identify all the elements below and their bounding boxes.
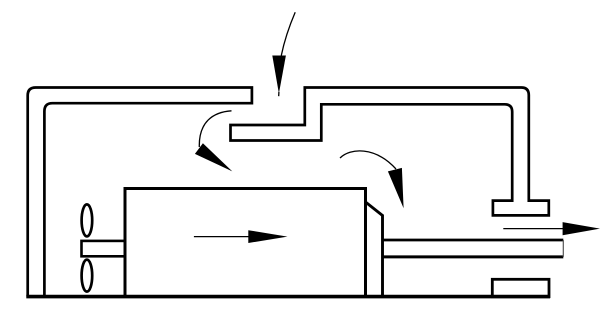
base line [26,295,550,299]
fan shaft [82,241,126,256]
over-engine flow arrow curve [340,151,396,169]
exhaust exit arrow line [503,228,564,230]
engine internal flow arrow line [194,236,250,238]
outlet pedestal block bottom right [492,279,549,296]
tailpipe duct bottom line [383,255,564,258]
tailpipe duct top line [383,239,564,242]
left enclosure wall (outer+inner double line with rounded corners) [28,88,252,297]
inlet air arrow curve (top) [279,12,296,96]
over-engine flow arrowhead [388,168,404,208]
inlet air arrowhead [272,56,286,94]
engine internal flow arrowhead [248,230,287,243]
recirculation hook arrow curve [199,111,231,147]
engine block [125,189,366,297]
tailpipe duct open end cap [562,240,564,257]
fan blade top (ellipse) [82,204,93,236]
chamfered end cap on engine right [366,202,383,297]
recirculation hook arrowhead [195,143,232,171]
fan blade bottom (ellipse) [82,260,93,292]
right enclosure wall with baffle and outlet flange (closed outline) [231,88,549,216]
exhaust exit arrowhead [563,222,600,235]
